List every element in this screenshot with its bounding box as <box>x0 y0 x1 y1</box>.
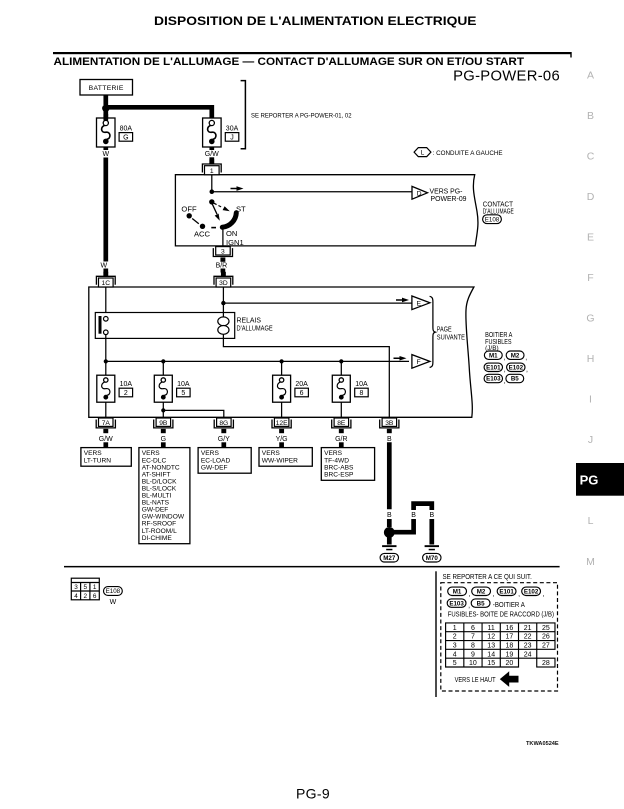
brace PAGE SUIVANTE <box>430 296 436 367</box>
svg-text:3D: 3D <box>219 280 228 287</box>
destination VERS LT-TURN <box>81 448 131 467</box>
svg-text:M2: M2 <box>477 589 486 596</box>
svg-text:G/Y: G/Y <box>218 436 230 443</box>
svg-text:E: E <box>587 232 594 244</box>
svg-text:(J/B): (J/B) <box>485 345 499 352</box>
wire fuse 6 to 12E <box>281 402 283 417</box>
wire bus to fuse 2 10A <box>105 361 107 377</box>
dashed arrow rotor to ST <box>214 203 222 207</box>
fusible link G 80A <box>97 118 116 147</box>
label 30A / J <box>225 126 239 142</box>
svg-text:1C: 1C <box>102 280 111 287</box>
legend hexagon L : CONDUITE A GAUCHE <box>414 148 431 157</box>
dash ACC-ON <box>211 227 216 229</box>
svg-text:D: D <box>417 190 422 197</box>
svg-text:E101: E101 <box>486 365 501 372</box>
svg-text:,: , <box>526 367 528 374</box>
wire stub to destination box <box>103 442 108 447</box>
svg-text:EC-DLC: EC-DLC <box>142 457 167 464</box>
wire stub into fusible link G <box>103 114 108 121</box>
bus node at fuse 6 20A <box>280 359 284 363</box>
svg-text:SE REPORTER A PG-POWER-01, 02: SE REPORTER A PG-POWER-01, 02 <box>251 113 352 120</box>
fuse 5 10A <box>154 375 172 402</box>
wire 3D to coil <box>222 287 224 317</box>
svg-text:CONTACT: CONTACT <box>483 201 514 208</box>
connector 3B <box>380 418 399 433</box>
svg-text:GW-DEF: GW-DEF <box>142 507 169 514</box>
svg-text:AT-SHIFT: AT-SHIFT <box>142 471 171 478</box>
svg-text:26: 26 <box>542 634 550 641</box>
svg-text:OFF: OFF <box>181 204 197 213</box>
ref E102 <box>507 363 525 371</box>
wire 3D node to page connector E <box>223 302 412 304</box>
ref B5 <box>506 374 524 382</box>
svg-text:E101: E101 <box>499 589 514 596</box>
wire inside switch from pin 1 <box>211 175 213 192</box>
svg-text:VERS LE HAUT: VERS LE HAUT <box>455 675 496 684</box>
svg-text:SUIVANTE: SUIVANTE <box>437 334 465 341</box>
svg-text:A: A <box>587 70 594 82</box>
svg-text:10A: 10A <box>177 381 190 388</box>
svg-text:28: 28 <box>542 660 550 667</box>
connector 1C into J/B <box>96 272 115 287</box>
svg-text:E102: E102 <box>524 589 539 596</box>
fuse box / junction box (J/B) outline <box>89 287 474 417</box>
svg-text:W: W <box>100 263 107 270</box>
separator rule above footer legend <box>64 566 560 568</box>
svg-text:BL-D/LOCK: BL-D/LOCK <box>142 478 177 485</box>
header rule <box>53 52 572 54</box>
svg-text:VERS: VERS <box>324 450 343 457</box>
fuse 6 20A <box>273 375 291 402</box>
wire stub to destination box <box>221 442 226 447</box>
svg-text:D'ALLUMAGE: D'ALLUMAGE <box>237 325 274 332</box>
connector 8E <box>332 418 351 433</box>
svg-text:B: B <box>587 110 594 122</box>
svg-text:12: 12 <box>487 634 495 641</box>
fusible link J 30A <box>203 118 222 147</box>
connector face E108 pin grid <box>71 578 99 600</box>
svg-text:,: , <box>543 591 545 598</box>
svg-text:E102: E102 <box>509 365 524 372</box>
svg-text:H: H <box>587 353 595 365</box>
svg-text:10A: 10A <box>120 381 133 388</box>
svg-text:TKWA0524E: TKWA0524E <box>526 741 559 747</box>
svg-text:I: I <box>589 394 592 406</box>
svg-text:LT-ROOM/L: LT-ROOM/L <box>142 528 177 535</box>
svg-text:,: , <box>468 603 470 610</box>
node on 3D wire <box>221 301 225 305</box>
svg-text:,: , <box>469 591 471 598</box>
ref M2 <box>506 351 524 359</box>
svg-text:AT-NONDTC: AT-NONDTC <box>142 464 180 471</box>
svg-text:,: , <box>518 591 520 598</box>
svg-text:10A: 10A <box>355 381 368 388</box>
svg-text:9B: 9B <box>159 420 168 427</box>
wire fuse 2 to 7A <box>105 402 107 417</box>
svg-text:3: 3 <box>453 642 457 649</box>
svg-text:18: 18 <box>506 642 514 649</box>
ground M27 <box>382 545 396 550</box>
svg-text:8: 8 <box>359 390 363 397</box>
legend ref M2 <box>472 587 491 595</box>
svg-text:L: L <box>421 150 425 157</box>
node fuse 5 output <box>161 408 165 412</box>
ref M1 <box>484 351 502 359</box>
svg-text:Y/G: Y/G <box>276 436 288 443</box>
battery <box>80 80 133 96</box>
wire bus to fuse 6 20A <box>281 361 283 377</box>
ignition switch OFF position <box>187 213 192 218</box>
svg-text:RF-SROOF: RF-SROOF <box>142 521 176 528</box>
svg-text:8G: 8G <box>219 420 228 427</box>
svg-text:M1: M1 <box>489 352 498 359</box>
fuse 8 10A <box>332 375 350 402</box>
svg-text:C: C <box>587 151 595 163</box>
legend ref E102 <box>522 587 541 595</box>
bus node at fuse 2 10A <box>104 359 108 363</box>
flow arrow to F <box>394 356 407 361</box>
label 10A / 8 <box>355 381 369 397</box>
svg-text:30A: 30A <box>226 126 239 133</box>
svg-text:PG-9: PG-9 <box>296 786 330 802</box>
svg-text:B5: B5 <box>511 376 519 383</box>
fuse number table <box>446 623 555 667</box>
svg-text:80A: 80A <box>120 126 133 133</box>
svg-text:E103: E103 <box>449 600 464 607</box>
svg-text:4: 4 <box>74 593 78 600</box>
svg-text:23: 23 <box>524 642 532 649</box>
dashed legend box <box>441 583 558 691</box>
svg-text:1: 1 <box>453 625 457 632</box>
svg-text:VERS: VERS <box>201 450 220 457</box>
svg-text:BL-MULTI: BL-MULTI <box>142 493 172 500</box>
svg-text:DI-CHIME: DI-CHIME <box>142 535 173 542</box>
destination VERS WW-WIPER <box>259 448 312 467</box>
svg-text:B: B <box>411 512 416 519</box>
solid arrow rotor to ON <box>212 204 217 214</box>
svg-text:BATTERIE: BATTERIE <box>89 85 124 92</box>
svg-text:B: B <box>387 512 392 519</box>
svg-text:M70: M70 <box>426 555 439 562</box>
svg-text:B5: B5 <box>477 600 485 607</box>
svg-text:7A: 7A <box>102 420 111 427</box>
page connector E <box>412 296 430 310</box>
ignition switch ACC position <box>200 224 205 229</box>
svg-text:G/R: G/R <box>335 436 347 443</box>
svg-text:PAGE: PAGE <box>437 327 452 334</box>
node: switch common <box>210 189 215 194</box>
svg-text:ALIMENTATION DE L'ALLUMAGE — C: ALIMENTATION DE L'ALLUMAGE — CONTACT D'A… <box>54 56 525 68</box>
wire battery to junction <box>103 95 108 105</box>
svg-text:ACC: ACC <box>194 229 211 238</box>
svg-text:3: 3 <box>221 248 225 255</box>
wire W down to 1C <box>103 158 108 262</box>
svg-text:ON: ON <box>226 229 237 238</box>
svg-text:5: 5 <box>181 390 185 397</box>
svg-text:5: 5 <box>453 660 457 667</box>
svg-text:8: 8 <box>471 642 475 649</box>
connector 3D into J/B <box>214 272 233 287</box>
reference bracket SE REPORTER A PG-POWER-01, 02 <box>241 81 246 149</box>
dash OFF-ACC <box>192 219 199 224</box>
svg-text:ST: ST <box>236 204 246 213</box>
svg-text:-BOITIER A: -BOITIER A <box>493 602 525 609</box>
ref E101 <box>484 363 502 371</box>
svg-text:VERS: VERS <box>84 450 103 457</box>
svg-text:14: 14 <box>487 651 495 658</box>
svg-text:19: 19 <box>506 651 514 658</box>
svg-text:1: 1 <box>93 584 97 591</box>
destination VERS TF-4WD BRC-ABS BRC-ESP <box>321 448 374 481</box>
legend ref E101 <box>497 587 516 595</box>
svg-text:,: , <box>525 355 527 362</box>
svg-text:4: 4 <box>453 651 457 658</box>
ignition relay box <box>95 313 234 339</box>
wire stub to destination box <box>161 442 166 447</box>
svg-text:13: 13 <box>487 642 495 649</box>
svg-text:2: 2 <box>453 634 457 641</box>
svg-text:M1: M1 <box>453 589 462 596</box>
legend ref B5 <box>471 599 490 607</box>
wire coil to 3B (ground return) <box>223 334 389 417</box>
svg-text:L: L <box>588 515 594 527</box>
svg-text:J: J <box>588 434 593 446</box>
svg-text:TF-4WD: TF-4WD <box>324 457 349 464</box>
svg-text:9: 9 <box>471 651 475 658</box>
svg-text:E: E <box>417 300 422 307</box>
wire junction to fusible link G <box>103 107 108 119</box>
wire B from 3B down <box>387 442 392 509</box>
flow arrow on PG-POWER-09 wire <box>231 186 244 191</box>
wire stub to destination box <box>339 442 344 447</box>
connector 3 out of ignition switch <box>213 247 232 262</box>
relay contact terminal bottom <box>104 330 109 335</box>
legend ref E103 <box>447 599 466 607</box>
svg-text:PG-POWER-06: PG-POWER-06 <box>453 69 560 85</box>
svg-text:21: 21 <box>524 625 532 632</box>
svg-text:6: 6 <box>300 390 304 397</box>
svg-text:PG: PG <box>580 473 599 488</box>
svg-text:BOITIER A: BOITIER A <box>485 332 513 339</box>
svg-text:J: J <box>230 134 234 141</box>
connector ref E108 <box>483 215 502 224</box>
page connector F <box>412 355 430 369</box>
svg-text:LT-TURN: LT-TURN <box>84 457 112 464</box>
svg-text:E108: E108 <box>106 588 121 595</box>
fuse 2 10A <box>97 375 115 402</box>
wire stub to destination box <box>279 442 284 447</box>
svg-text:D: D <box>587 191 595 203</box>
svg-text:B: B <box>387 436 392 443</box>
ref E103 <box>484 374 502 382</box>
label 10A / 5 <box>177 381 191 397</box>
svg-text:12E: 12E <box>276 420 288 427</box>
svg-text:G: G <box>123 134 128 141</box>
svg-text:25: 25 <box>542 625 550 632</box>
wire relay contact to fuse bus <box>105 335 107 362</box>
svg-text:22: 22 <box>524 634 532 641</box>
label 80A / G <box>119 126 133 142</box>
svg-text:RELAIS: RELAIS <box>237 318 262 325</box>
PG section tab <box>576 463 624 496</box>
svg-text:FUSIBLES- BOITE DE RACCORD (J/: FUSIBLES- BOITE DE RACCORD (J/B) <box>448 611 554 618</box>
svg-text:VERS PG-: VERS PG- <box>430 189 463 196</box>
svg-text:BRC-ABS: BRC-ABS <box>324 464 354 471</box>
battery junction node <box>102 105 109 112</box>
fuse supply bus <box>106 360 409 362</box>
destination VERS EC-DLC list <box>139 448 190 544</box>
wire junction to fusible link J (horizontal) <box>106 107 212 118</box>
svg-text:G/W: G/W <box>99 436 113 443</box>
svg-text:EC-LOAD: EC-LOAD <box>201 457 231 464</box>
footer legend divider <box>435 571 436 697</box>
svg-text:10: 10 <box>469 660 477 667</box>
wire IGN1 down to pin 3 <box>222 229 224 246</box>
connector 12E <box>272 418 291 433</box>
svg-text:B: B <box>429 512 434 519</box>
legend ref M1 <box>448 587 467 595</box>
ignition switch box (CONTACT D ALLUMAGE E108) <box>175 175 478 246</box>
svg-text:W: W <box>110 599 117 606</box>
svg-text:8E: 8E <box>337 420 346 427</box>
svg-text:M: M <box>586 556 595 568</box>
svg-text:G: G <box>586 313 594 325</box>
ground M70 <box>425 545 439 550</box>
svg-text:27: 27 <box>542 642 550 649</box>
svg-text:,: , <box>504 367 506 374</box>
svg-text:5: 5 <box>84 584 88 591</box>
svg-text:11: 11 <box>488 625 495 632</box>
svg-text:,: , <box>493 591 495 598</box>
flow arrow to E <box>396 298 409 303</box>
svg-text:20A: 20A <box>295 381 308 388</box>
svg-text:G/W: G/W <box>205 151 219 158</box>
label 20A / 6 <box>295 381 309 397</box>
svg-text:: CONDUITE A GAUCHE: : CONDUITE A GAUCHE <box>433 150 504 157</box>
svg-text:17: 17 <box>506 634 514 641</box>
wire junction to ground M27 <box>387 536 392 545</box>
svg-text:IGN1: IGN1 <box>226 238 244 247</box>
svg-text:1: 1 <box>210 168 214 175</box>
connector 9B <box>154 418 173 433</box>
svg-text:16: 16 <box>506 625 514 632</box>
wire 1C to relay contact <box>105 287 107 317</box>
svg-text:WW-WIPER: WW-WIPER <box>262 457 298 464</box>
wire label W below fusible link G <box>103 147 108 150</box>
svg-text:BRC-ESP: BRC-ESP <box>324 471 354 478</box>
svg-text:G: G <box>161 436 166 443</box>
svg-text:VERS: VERS <box>262 450 281 457</box>
svg-text:,: , <box>504 355 506 362</box>
relay contact terminal top <box>104 317 109 322</box>
svg-text:15: 15 <box>487 660 495 667</box>
svg-text:2: 2 <box>84 593 88 600</box>
svg-text:7: 7 <box>471 634 475 641</box>
svg-text:6: 6 <box>93 593 97 600</box>
relay contact bar <box>99 316 102 334</box>
svg-text:F: F <box>417 359 421 366</box>
wire fuse 8 to 8E <box>340 402 342 417</box>
wire bus to fuse 8 10A <box>340 361 342 377</box>
svg-text:3: 3 <box>74 584 78 591</box>
wire fuse 5 to 9B <box>162 402 164 417</box>
svg-text:POWER-09: POWER-09 <box>431 196 467 203</box>
svg-text:M27: M27 <box>383 555 396 562</box>
bus node at fuse 5 10A <box>161 359 165 363</box>
branch to M70: right-up-right-down <box>389 519 413 532</box>
svg-text:BL-NATS: BL-NATS <box>142 500 170 507</box>
svg-text:DISPOSITION DE L'ALIMENTATION: DISPOSITION DE L'ALIMENTATION ELECTRIQUE <box>154 14 477 28</box>
bus node at fuse 8 10A <box>339 359 343 363</box>
branch wire fuse5 node to 8G <box>163 410 224 417</box>
switch wiper arc ON-ST <box>222 213 236 227</box>
connector ref E108 (face) <box>104 587 123 596</box>
svg-text:3B: 3B <box>385 420 394 427</box>
svg-text:BL-S/LOCK: BL-S/LOCK <box>142 486 177 493</box>
svg-text:24: 24 <box>524 651 532 658</box>
ground junction node <box>384 527 395 538</box>
svg-text:E108: E108 <box>485 216 500 223</box>
wire to VERS PG-POWER-09 <box>212 191 412 193</box>
svg-text:GW-DEF: GW-DEF <box>201 464 228 471</box>
svg-text:6: 6 <box>471 625 475 632</box>
svg-text:M2: M2 <box>511 352 520 359</box>
connector 8G <box>214 418 233 433</box>
svg-text:F: F <box>587 272 593 284</box>
label 10A / 2 <box>119 381 133 397</box>
wire label G/W below fusible link J <box>209 147 214 150</box>
svg-text:GW-WINDOW: GW-WINDOW <box>142 514 185 521</box>
page connector D <box>412 186 428 199</box>
connector 7A <box>96 418 115 433</box>
svg-text:SE REPORTER A CE QUI SUIT.: SE REPORTER A CE QUI SUIT. <box>443 572 532 581</box>
svg-text:20: 20 <box>506 660 514 667</box>
svg-text:2: 2 <box>124 390 128 397</box>
margin index letters <box>586 70 595 569</box>
svg-text:E103: E103 <box>486 376 501 383</box>
node: rotor pivot <box>209 199 214 204</box>
svg-text:B/R: B/R <box>216 263 228 270</box>
connector 1 into ignition switch <box>202 160 221 175</box>
wire bus to fuse 5 10A <box>162 361 164 377</box>
destination VERS EC-LOAD GW-DEF <box>198 448 251 474</box>
svg-text:VERS: VERS <box>142 450 161 457</box>
svg-text:W: W <box>102 151 109 158</box>
relay coil <box>218 317 229 326</box>
